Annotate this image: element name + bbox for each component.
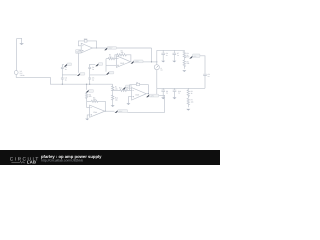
label V1 (20, 70, 25, 77)
wire (157, 87, 205, 89)
svg-text:R11: R11 (119, 86, 122, 89)
ground (85, 119, 89, 121)
wire (106, 64, 116, 66)
wire (78, 50, 81, 52)
resistor R11 (OA3 input) (113, 86, 132, 91)
op-amp OA3 (132, 88, 147, 100)
ground (111, 105, 115, 107)
svg-text:1u: 1u (92, 68, 94, 71)
node tag K (divider node) (122, 85, 131, 89)
svg-text:1k: 1k (191, 92, 193, 95)
wire (87, 115, 89, 119)
node tag E (OA1 out) (104, 47, 116, 51)
capacitor C5 (88, 77, 94, 85)
resistor R8 (86, 92, 92, 107)
wire (77, 51, 79, 73)
svg-text:1n: 1n (136, 81, 138, 84)
svg-text:1u: 1u (166, 54, 168, 57)
ground (172, 61, 176, 63)
op-amp OA1 (76, 43, 93, 53)
wire (146, 93, 148, 95)
resistor R9 (OA4 feedback) (87, 96, 106, 111)
footer bar (0, 150, 220, 165)
svg-text:1u: 1u (65, 78, 67, 81)
svg-text:10k: 10k (109, 55, 112, 58)
resistor R5 (183, 60, 189, 69)
capacitor C1 (feedback) (84, 37, 88, 42)
wire (105, 59, 107, 72)
wire (87, 41, 97, 48)
node tag G (+12V out) (184, 54, 200, 59)
resistor R4 (183, 50, 189, 60)
wire (156, 88, 158, 95)
wire (200, 56, 205, 74)
svg-text:1u: 1u (166, 92, 168, 95)
capacitor C6 (161, 50, 168, 60)
wire (128, 97, 131, 104)
wire (62, 74, 77, 76)
node tag B (77, 73, 85, 76)
wire top rail (157, 49, 185, 51)
capacitor C11 (OA3 feedback) (130, 81, 149, 94)
ground GND top-left (17, 38, 24, 45)
ammeter I1 (154, 50, 163, 88)
junction (151, 61, 152, 62)
resistor R10 (divider bottom) (112, 91, 119, 106)
svg-text:+12: +12 (193, 55, 196, 58)
svg-text:1k: 1k (187, 54, 189, 57)
junction bus dots (62, 84, 63, 85)
svg-text:1u: 1u (208, 75, 210, 78)
svg-text:OA3: OA3 (135, 94, 139, 97)
svg-text:10k: 10k (93, 98, 96, 101)
CircuitLab logo (10, 157, 40, 165)
op-amp OA2 (116, 56, 130, 68)
wire (143, 61, 157, 63)
node tag J (OA4 out) (115, 110, 128, 113)
junction (148, 93, 149, 94)
svg-text:1u: 1u (92, 78, 94, 81)
capacitor C3 (61, 77, 67, 85)
resistor R6 (187, 88, 193, 98)
wire (16, 39, 18, 71)
wire OA4 output (105, 110, 115, 112)
svg-text:OA1: OA1 (76, 51, 80, 54)
capacitor C10 (173, 88, 181, 97)
capacitor C4 (88, 64, 94, 78)
node tag I (OA4 input from bus) (86, 84, 94, 92)
source V1 (14, 71, 18, 75)
wire OA1 output (92, 48, 151, 62)
svg-text:10k: 10k (89, 95, 92, 98)
ground (161, 61, 165, 63)
wire (78, 41, 84, 46)
svg-text:10k: 10k (115, 88, 118, 91)
svg-text:10k: 10k (187, 62, 190, 65)
svg-text:OA2: OA2 (120, 62, 124, 65)
node tag F (OA2 out) (131, 60, 143, 64)
ground (126, 103, 130, 105)
junction (156, 61, 157, 62)
op-amp OA4 (90, 105, 105, 117)
node tag A (left supply) (62, 63, 71, 67)
resistor R3 (OA2 input) (106, 54, 117, 60)
svg-text:10k: 10k (191, 101, 194, 104)
svg-text:LAB: LAB (27, 160, 36, 165)
ground (173, 97, 177, 99)
capacitor C9 (161, 88, 168, 97)
node tag D (106, 71, 114, 74)
wire (16, 74, 113, 84)
svg-text:10k: 10k (115, 99, 118, 102)
svg-text:1 kHz: 1 kHz (20, 74, 25, 77)
svg-text:10k: 10k (121, 51, 124, 54)
node tag C (right supply) (90, 63, 103, 67)
resistor R7 (187, 98, 193, 107)
wire (90, 74, 106, 76)
ground (182, 70, 186, 72)
capacitor C7 (173, 50, 180, 60)
ground (161, 97, 165, 99)
svg-text:100p: 100p (84, 37, 88, 40)
node tag H (OA3 out) (146, 94, 159, 97)
junction (105, 111, 106, 112)
svg-text:1u: 1u (177, 54, 179, 57)
capacitor C2 (61, 65, 67, 78)
wire (128, 95, 165, 112)
resistor R2 (OA2 feedback) (115, 49, 131, 61)
resistor R1 (divider top) (112, 84, 118, 91)
wire (87, 107, 90, 109)
svg-text:1u: 1u (65, 68, 67, 71)
ground (186, 109, 190, 111)
capacitor C8 (203, 73, 210, 88)
svg-text:1u: 1u (178, 92, 180, 95)
junction (96, 47, 97, 48)
svg-text:http://circuitlab.com/c/82kk6: http://circuitlab.com/c/82kk6 (41, 159, 83, 163)
svg-text:OA4: OA4 (93, 111, 97, 114)
